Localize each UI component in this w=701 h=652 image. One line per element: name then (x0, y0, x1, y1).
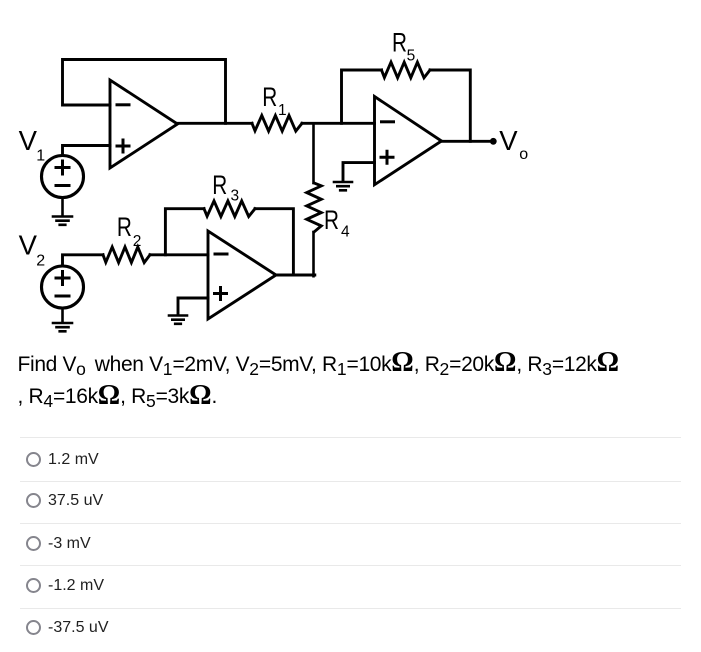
svg-text:2: 2 (133, 233, 142, 250)
svg-text:R: R (324, 205, 339, 235)
source V1 plus sign (56, 161, 69, 174)
ground at U2 plus input (334, 182, 352, 190)
svg-text:o: o (519, 146, 528, 163)
wire R1 to U2 inverting input (302, 122, 375, 125)
wire V1 to U1 plus input (63, 146, 111, 156)
op-amp U3 plus input symbol (215, 288, 227, 300)
node junction to R4 (312, 123, 315, 183)
node output dot (490, 138, 497, 145)
resistor R4 (307, 183, 322, 232)
source V2 minus sign (56, 295, 69, 298)
svg-text:R: R (392, 27, 407, 57)
svg-text:1: 1 (278, 102, 287, 119)
svg-text:R: R (212, 170, 227, 200)
source V1 minus sign (56, 184, 69, 187)
wire R5 to output (430, 70, 470, 141)
op-amp U2 (top-right) triangle (375, 97, 442, 185)
resistor R3 (204, 201, 255, 217)
resistor R5 (382, 62, 431, 78)
op-amp U2 plus input symbol (381, 151, 393, 163)
ground under V2 (53, 323, 72, 331)
wire U2 output (440, 140, 491, 143)
op-amp U1 minus input symbol (117, 103, 129, 106)
source V2 plus sign (56, 272, 69, 285)
op-amp U2 minus input symbol (382, 120, 394, 123)
svg-text:5: 5 (407, 48, 416, 65)
wire R2 to U3 inverting input (150, 253, 208, 256)
ground under V1 (53, 217, 72, 225)
resistor R2 (103, 247, 150, 263)
svg-text:R: R (262, 82, 277, 112)
source V2 circle (42, 266, 84, 308)
wire U3 output to R4 (275, 274, 315, 277)
wire R3 to U3 output (255, 209, 293, 275)
op-amp U1 (top-left follower) triangle (110, 80, 178, 168)
svg-text:V: V (19, 230, 38, 261)
ground at U3 plus input (169, 316, 187, 324)
wire U1 feedback loop (output to inverting input) (63, 60, 226, 124)
op-amp U3 minus input symbol (215, 253, 227, 256)
wire V2 to R2 (63, 255, 104, 266)
svg-text:V: V (19, 125, 38, 156)
question text line 2 (18, 385, 217, 409)
op-amp U1 plus input symbol (117, 140, 129, 152)
svg-text:V: V (499, 125, 518, 156)
svg-text:4: 4 (341, 224, 350, 241)
wire U1 output to R1 (176, 122, 252, 125)
question text line 1 (18, 353, 620, 377)
wire U3 feedback to R3 (165, 209, 204, 255)
svg-text:2: 2 (36, 252, 45, 269)
wire V2 to ground (61, 308, 64, 323)
wire U3 plus input to ground (178, 298, 208, 315)
wire R4 to U3 output (312, 232, 315, 276)
wire U2 plus input to ground (343, 163, 375, 182)
wire V1 to ground (61, 198, 64, 217)
svg-text:R: R (117, 212, 132, 242)
svg-text:3: 3 (231, 188, 240, 205)
op-amp U3 (bottom) triangle (208, 231, 276, 319)
resistor R1 (252, 116, 302, 132)
wire U2 feedback to R5 (342, 70, 382, 123)
source V1 circle (42, 156, 84, 198)
svg-text:1: 1 (36, 147, 45, 164)
